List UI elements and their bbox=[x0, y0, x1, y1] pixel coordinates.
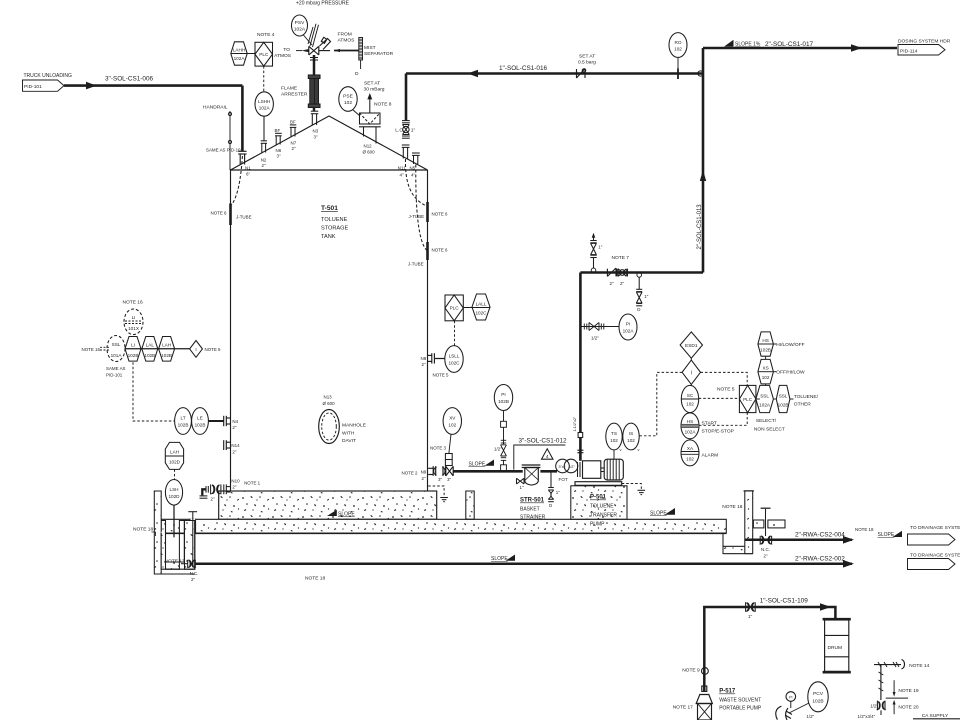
svg-text:1/2": 1/2" bbox=[568, 465, 575, 469]
drain line 2"-RWA-CS2-002 bbox=[195, 563, 852, 566]
svg-text:102: 102 bbox=[762, 375, 770, 380]
dashed to LT bbox=[133, 362, 174, 421]
svg-text:102: 102 bbox=[686, 402, 694, 407]
svg-text:102B: 102B bbox=[178, 423, 189, 428]
svg-text:NOTE 18: NOTE 18 bbox=[855, 527, 874, 532]
svg-text:LALL: LALL bbox=[476, 302, 487, 307]
svg-text:2": 2" bbox=[292, 146, 296, 151]
svg-text:2": 2" bbox=[232, 425, 236, 430]
svg-text:v: v bbox=[620, 447, 622, 452]
svg-text:NOTE 1: NOTE 1 bbox=[244, 481, 261, 486]
svg-text:WITH: WITH bbox=[342, 431, 355, 437]
nozzle N1 with unloading dip pipe bbox=[238, 151, 246, 164]
svg-text:XV: XV bbox=[449, 416, 456, 421]
LSLL 102C bbox=[445, 346, 463, 373]
LT 102B / LE 102B bbox=[175, 408, 192, 435]
svg-text:2": 2" bbox=[211, 497, 215, 502]
small concrete blocks by tundish bbox=[753, 520, 764, 528]
svg-text:3"-SOL-CS1-006: 3"-SOL-CS1-006 bbox=[105, 76, 154, 83]
svg-text:MIST: MIST bbox=[364, 45, 376, 51]
revision triangle 4 bbox=[542, 449, 554, 459]
svg-text:+20 mbarg PRESSURE: +20 mbarg PRESSURE bbox=[296, 1, 350, 7]
svg-text:IS: IS bbox=[629, 431, 633, 436]
motor ground bbox=[622, 484, 642, 490]
svg-text:DAVIT: DAVIT bbox=[342, 438, 356, 444]
svg-text:102: 102 bbox=[344, 100, 352, 106]
svg-text:LAHH: LAHH bbox=[233, 48, 245, 53]
svg-text:NOTE 15: NOTE 15 bbox=[82, 347, 101, 352]
svg-text:NOTE 8: NOTE 8 bbox=[374, 102, 392, 108]
SSL 102A hexagon bbox=[756, 385, 774, 412]
svg-text:T-501: T-501 bbox=[321, 205, 338, 212]
svg-text:NOTE 2: NOTE 2 bbox=[402, 471, 419, 476]
svg-text:SET AT: SET AT bbox=[579, 54, 595, 60]
pump P-501 body bbox=[583, 461, 601, 479]
line strainer to pump bbox=[540, 470, 557, 473]
flame arrester bbox=[313, 55, 316, 75]
svg-text:3": 3" bbox=[438, 477, 442, 482]
svg-text:PSE: PSE bbox=[343, 94, 353, 100]
svg-text:SLOPE: SLOPE bbox=[650, 511, 667, 517]
svg-text:NOTE 18: NOTE 18 bbox=[133, 527, 153, 533]
svg-text:N1: N1 bbox=[245, 166, 251, 171]
svg-text:N9: N9 bbox=[421, 470, 427, 475]
N.C. valve on RWA-004 bbox=[760, 536, 771, 545]
svg-text:30 mBarg: 30 mBarg bbox=[364, 87, 385, 93]
valve 1" bbox=[746, 602, 756, 611]
manhole N13 with davit bbox=[319, 410, 340, 444]
svg-text:TOLUENE/: TOLUENE/ bbox=[794, 394, 819, 400]
svg-text:102B: 102B bbox=[778, 403, 789, 408]
dashed HS to PLC bbox=[699, 413, 747, 426]
svg-text:102B: 102B bbox=[161, 353, 172, 358]
svg-text:PLC: PLC bbox=[450, 306, 460, 311]
svg-text:102: 102 bbox=[686, 457, 694, 462]
svg-text:BASKET: BASKET bbox=[520, 507, 540, 513]
tundish funnel in pit bbox=[188, 512, 197, 564]
vent valve 1" bbox=[591, 268, 596, 273]
LALL 102C hexagon bbox=[463, 307, 490, 309]
svg-text:NOTE 3: NOTE 3 bbox=[430, 446, 447, 451]
HS 102B hexagon bbox=[758, 332, 774, 356]
svg-text:102: 102 bbox=[610, 438, 618, 443]
svg-text:LAL: LAL bbox=[146, 343, 155, 348]
svg-text:1": 1" bbox=[411, 128, 416, 134]
svg-text:LSLL: LSLL bbox=[449, 354, 460, 359]
svg-text:1/2"x3/4": 1/2"x3/4" bbox=[858, 714, 876, 719]
svg-text:ARRESTER: ARRESTER bbox=[281, 92, 308, 98]
HS 102A bbox=[681, 413, 699, 439]
strainer STR-501 bbox=[522, 465, 541, 485]
pipe support pedestal bbox=[466, 491, 474, 519]
line 1"-SOL-CS1-016 bbox=[406, 72, 703, 75]
svg-text:ATMOS: ATMOS bbox=[274, 53, 292, 59]
svg-text:N13: N13 bbox=[324, 395, 333, 400]
nozzle N14 bbox=[224, 440, 231, 450]
P-517 portable pump bbox=[696, 674, 712, 720]
interlock diamond bbox=[190, 341, 203, 358]
svg-text:MANHOLE: MANHOLE bbox=[342, 423, 367, 429]
nozzle N12 manhole with PSE bbox=[359, 95, 381, 144]
svg-text:NOTE 18: NOTE 18 bbox=[722, 504, 742, 510]
svg-text:1": 1" bbox=[598, 245, 602, 250]
svg-text:102: 102 bbox=[448, 423, 456, 428]
reducers 3"x2-1/2" bbox=[556, 459, 570, 473]
svg-text:102A: 102A bbox=[685, 430, 697, 435]
svg-text:LSH: LSH bbox=[169, 487, 178, 492]
svg-text:SELECT/: SELECT/ bbox=[756, 418, 777, 424]
svg-text:PSV: PSV bbox=[295, 20, 305, 26]
dashed I to IS bbox=[640, 372, 683, 435]
svg-text:ESD1: ESD1 bbox=[685, 343, 698, 349]
svg-text:HANDRAIL: HANDRAIL bbox=[203, 105, 228, 111]
svg-text:N14: N14 bbox=[231, 443, 240, 448]
N.C. 2" sump drain valve bbox=[181, 560, 195, 568]
svg-text:102A: 102A bbox=[259, 106, 271, 111]
svg-text:102C: 102C bbox=[448, 361, 460, 366]
nozzle N3 (flame arrester) bbox=[311, 111, 319, 125]
pump foundation P-501 bbox=[571, 486, 627, 519]
svg-text:102B: 102B bbox=[195, 423, 206, 428]
svg-text:102A: 102A bbox=[623, 329, 635, 334]
svg-text:TRUCK UNLOADING: TRUCK UNLOADING bbox=[24, 73, 72, 79]
svg-text:LT: LT bbox=[180, 416, 185, 421]
svg-text:SC: SC bbox=[687, 393, 694, 398]
PCV 102B bbox=[808, 682, 828, 712]
svg-text:PLC: PLC bbox=[259, 52, 269, 57]
XV 102 bubble bbox=[443, 408, 461, 435]
L.O. valve at N11 bbox=[402, 121, 410, 139]
svg-text:NOTE 19: NOTE 19 bbox=[898, 688, 918, 694]
svg-text:101X: 101X bbox=[128, 326, 139, 331]
SSL 102B hexagon bbox=[776, 385, 790, 412]
svg-text:SLOPE: SLOPE bbox=[469, 462, 486, 468]
dashed I to PLC bbox=[701, 372, 748, 385]
svg-text:WASTE SOLVENT: WASTE SOLVENT bbox=[719, 698, 761, 704]
svg-text:L.O: L.O bbox=[395, 128, 403, 134]
svg-text:4": 4" bbox=[400, 173, 404, 178]
svg-text:TO: TO bbox=[283, 47, 290, 53]
svg-text:N.C.: N.C. bbox=[190, 571, 199, 576]
svg-text:P-501: P-501 bbox=[590, 495, 607, 501]
svg-text:102B: 102B bbox=[760, 348, 771, 353]
svg-text:NOTE 7: NOTE 7 bbox=[612, 255, 630, 261]
tank T-501 shell bbox=[231, 116, 428, 491]
hose to drum bbox=[776, 706, 788, 720]
svg-text:v: v bbox=[638, 447, 640, 452]
XV actuator bbox=[445, 454, 452, 466]
svg-text:0.5 barg: 0.5 barg bbox=[578, 60, 596, 66]
svg-text:N.C.: N.C. bbox=[761, 547, 770, 552]
svg-text:SLOPE: SLOPE bbox=[878, 532, 895, 538]
motor bbox=[604, 459, 623, 480]
svg-text:6": 6" bbox=[246, 172, 250, 177]
svg-text:2": 2" bbox=[610, 281, 614, 286]
svg-text:SET AT: SET AT bbox=[364, 81, 380, 87]
svg-text:Ø 600: Ø 600 bbox=[323, 401, 336, 406]
svg-text:1-1/2"x2": 1-1/2"x2" bbox=[573, 416, 577, 431]
svg-text:LE: LE bbox=[197, 416, 203, 421]
strainer drain valve bbox=[517, 478, 525, 484]
svg-text:HS: HS bbox=[762, 338, 768, 343]
svg-text:3"-SOL-CS1-012: 3"-SOL-CS1-012 bbox=[519, 438, 568, 445]
concrete drain column NOTE 18 bbox=[745, 491, 753, 554]
svg-text:J-TUBE: J-TUBE bbox=[408, 262, 424, 267]
baseplate bbox=[575, 482, 622, 486]
LSH 102D bbox=[165, 480, 182, 506]
svg-text:102A: 102A bbox=[294, 27, 306, 33]
svg-text:NOTE 6: NOTE 6 bbox=[211, 211, 228, 216]
ground slab bbox=[161, 519, 753, 553]
svg-text:2": 2" bbox=[422, 362, 426, 367]
PSE 102 bbox=[339, 87, 357, 112]
svg-text:1"-SOL-CS1-016: 1"-SOL-CS1-016 bbox=[499, 65, 548, 72]
svg-text:1"-SOL-CS1-109: 1"-SOL-CS1-109 bbox=[760, 598, 809, 605]
CA supply hose connection bbox=[874, 660, 905, 701]
drum bbox=[823, 619, 851, 672]
svg-text:2": 2" bbox=[620, 281, 624, 286]
svg-text:1/2": 1/2" bbox=[591, 336, 599, 341]
svg-text:N11: N11 bbox=[398, 166, 406, 171]
PI small gauge bbox=[786, 692, 796, 702]
left J-tube anchor bbox=[229, 204, 232, 226]
svg-text:HS: HS bbox=[687, 419, 693, 424]
svg-text:1/2": 1/2" bbox=[806, 714, 814, 719]
svg-text:2"-RWA-CS2-002: 2"-RWA-CS2-002 bbox=[795, 556, 845, 563]
PVRV (pressure/vacuum relief valve) bbox=[308, 24, 331, 55]
handrail bbox=[228, 111, 231, 170]
svg-text:NOTE 6: NOTE 6 bbox=[432, 248, 449, 253]
svg-text:102A: 102A bbox=[234, 56, 246, 61]
svg-text:TS: TS bbox=[611, 431, 617, 436]
drop into N1 bbox=[241, 86, 244, 151]
svg-text:PLC: PLC bbox=[743, 397, 753, 402]
svg-text:SLOPE: SLOPE bbox=[491, 556, 508, 562]
svg-text:PI: PI bbox=[626, 322, 630, 327]
svg-text:STOP/E-STOP: STOP/E-STOP bbox=[702, 429, 734, 435]
pump discharge riser bbox=[579, 438, 582, 461]
svg-text:STORAGE: STORAGE bbox=[321, 226, 349, 232]
svg-text:102C: 102C bbox=[475, 311, 487, 316]
svg-text:102B: 102B bbox=[498, 399, 509, 404]
svg-text:TOLUENE: TOLUENE bbox=[590, 504, 614, 510]
svg-text:N5: N5 bbox=[410, 166, 416, 171]
I diamond bbox=[682, 360, 700, 384]
svg-text:2": 2" bbox=[232, 484, 236, 489]
svg-text:N8: N8 bbox=[421, 356, 427, 361]
svg-text:NON SELECT: NON SELECT bbox=[754, 427, 785, 433]
tank label T-501 bbox=[321, 205, 349, 240]
drain branch 1" D bbox=[637, 273, 642, 278]
svg-text:D: D bbox=[355, 71, 359, 77]
svg-text:NOTE 5: NOTE 5 bbox=[717, 387, 735, 393]
svg-text:N4: N4 bbox=[232, 419, 238, 424]
ESD1 diamond bbox=[680, 332, 702, 358]
svg-text:I: I bbox=[195, 347, 196, 353]
svg-text:NOTE 20: NOTE 20 bbox=[898, 704, 918, 710]
TS 102 / IS 102 bbox=[606, 423, 622, 450]
svg-text:NOTE 16: NOTE 16 bbox=[123, 300, 143, 306]
SSL 101A bbox=[107, 336, 125, 362]
svg-text:PI: PI bbox=[501, 392, 505, 397]
svg-text:BF: BF bbox=[275, 128, 281, 133]
line 3"-SOL-CS1-006 bbox=[64, 84, 242, 87]
svg-text:102B: 102B bbox=[812, 699, 823, 705]
svg-text:ATMOS: ATMOS bbox=[338, 38, 356, 44]
svg-text:4": 4" bbox=[411, 173, 415, 178]
XA 102 bbox=[681, 440, 699, 466]
svg-text:SAME AS: SAME AS bbox=[106, 366, 126, 371]
nozzle N8 bbox=[435, 358, 445, 360]
SC 102 bbox=[681, 385, 698, 412]
svg-text:TANK: TANK bbox=[321, 234, 336, 240]
svg-text:D: D bbox=[637, 307, 640, 312]
connectors ESD-I-SC bbox=[690, 358, 691, 440]
CA supply valve bbox=[877, 701, 885, 715]
svg-text:DOSING SYSTEM HDR: DOSING SYSTEM HDR bbox=[898, 39, 951, 45]
svg-text:NOTE 5: NOTE 5 bbox=[205, 347, 222, 352]
svg-text:2": 2" bbox=[262, 163, 266, 168]
svg-text:101A: 101A bbox=[111, 353, 123, 358]
svg-text:J-TUBE: J-TUBE bbox=[409, 214, 425, 219]
check valve bbox=[607, 268, 616, 276]
right J-tube anchors bbox=[426, 202, 429, 222]
svg-text:SEPARATOR: SEPARATOR bbox=[364, 51, 394, 57]
PLC box (select) bbox=[739, 385, 756, 412]
nozzle N4 bbox=[208, 420, 224, 422]
PI 102B bbox=[494, 385, 512, 411]
PSV 102A bubble bbox=[292, 15, 308, 36]
NOTE 9 coupling bbox=[702, 668, 709, 675]
slope labels on slab bbox=[327, 510, 337, 516]
svg-text:1/2": 1/2" bbox=[870, 703, 878, 708]
LSHH 102A bbox=[255, 92, 273, 116]
svg-text:XA: XA bbox=[687, 446, 694, 451]
svg-text:102A: 102A bbox=[759, 403, 771, 408]
svg-text:J-TUBE: J-TUBE bbox=[236, 215, 252, 220]
svg-text:N3: N3 bbox=[313, 129, 319, 134]
svg-text:2"-SOL-CS1-017: 2"-SOL-CS1-017 bbox=[765, 41, 814, 48]
tank foundation bbox=[219, 491, 437, 519]
svg-text:LAH: LAH bbox=[170, 450, 179, 455]
svg-text:102: 102 bbox=[674, 47, 682, 52]
nozzle N6 bbox=[275, 133, 282, 144]
svg-text:2"-SOL-CS1-013: 2"-SOL-CS1-013 bbox=[697, 204, 703, 250]
discharge header to riser bbox=[580, 271, 703, 274]
svg-text:ALARM: ALARM bbox=[702, 452, 719, 458]
nozzle N7 bbox=[290, 125, 297, 137]
svg-text:SSL: SSL bbox=[779, 394, 788, 399]
svg-text:N7: N7 bbox=[291, 141, 297, 146]
svg-text:N10: N10 bbox=[231, 478, 240, 483]
svg-text:102D: 102D bbox=[169, 460, 181, 465]
svg-text:2": 2" bbox=[191, 577, 195, 582]
svg-text:NOTE 17: NOTE 17 bbox=[673, 705, 693, 711]
svg-text:PCV: PCV bbox=[813, 691, 824, 697]
svg-text:STR-501: STR-501 bbox=[520, 498, 545, 504]
svg-text:N2: N2 bbox=[261, 158, 267, 163]
svg-text:Ø 600: Ø 600 bbox=[363, 150, 376, 155]
svg-text:3": 3" bbox=[277, 154, 281, 159]
svg-text:NOTE 6: NOTE 6 bbox=[432, 212, 449, 217]
line 2"-SOL-CS1-017 to dosing bbox=[703, 47, 897, 50]
svg-text:XS: XS bbox=[762, 366, 768, 371]
line 1"-SOL-CS1-109 bbox=[704, 607, 835, 691]
svg-text:102: 102 bbox=[627, 438, 635, 443]
svg-text:2": 2" bbox=[422, 476, 426, 481]
LAH 102D hexagon bbox=[165, 442, 183, 469]
svg-text:PUMP: PUMP bbox=[590, 522, 605, 528]
drain line 2"-RWA-CS2-004 bbox=[745, 539, 852, 542]
svg-text:1": 1" bbox=[644, 294, 648, 299]
svg-text:PID-101: PID-101 bbox=[24, 84, 42, 90]
svg-text:1": 1" bbox=[520, 485, 524, 490]
svg-text:OFF/HI/LOW: OFF/HI/LOW bbox=[776, 370, 805, 376]
svg-text:NOTE 4: NOTE 4 bbox=[257, 32, 275, 38]
svg-text:SLOPE: SLOPE bbox=[338, 512, 355, 518]
svg-text:SAME AS PID-101: SAME AS PID-101 bbox=[206, 148, 244, 153]
svg-text:NOTE 5: NOTE 5 bbox=[433, 372, 450, 377]
nozzle N11 bbox=[402, 145, 410, 159]
svg-text:SSL: SSL bbox=[760, 394, 769, 399]
svg-text:1": 1" bbox=[748, 614, 752, 619]
svg-text:NOTE 9: NOTE 9 bbox=[682, 668, 700, 674]
svg-text:I: I bbox=[691, 371, 692, 377]
tank grounding bbox=[428, 486, 444, 496]
LAHH 102A hexagon bbox=[231, 42, 247, 65]
svg-text:102B: 102B bbox=[144, 353, 155, 358]
svg-text:PORTABLE PUMP: PORTABLE PUMP bbox=[719, 706, 762, 712]
svg-text:SSL: SSL bbox=[112, 342, 121, 347]
svg-text:N12: N12 bbox=[364, 144, 373, 149]
svg-text:OTHER: OTHER bbox=[794, 402, 811, 408]
svg-text:NOTE 18: NOTE 18 bbox=[305, 576, 325, 582]
hexagons LI/LAL/LAH 102B bbox=[125, 348, 190, 350]
XS 102 hexagon bbox=[758, 359, 774, 384]
svg-text:PID-114: PID-114 bbox=[900, 49, 918, 55]
svg-text:RO: RO bbox=[675, 40, 682, 45]
svg-text:102D: 102D bbox=[168, 494, 180, 499]
svg-text:102B: 102B bbox=[128, 353, 139, 358]
svg-text:STRAINER: STRAINER bbox=[520, 515, 546, 521]
suction line to strainer/pump bbox=[453, 470, 523, 473]
svg-text:3": 3" bbox=[447, 477, 451, 482]
nozzle N2 bbox=[261, 141, 267, 153]
svg-text:N6: N6 bbox=[276, 148, 282, 153]
svg-text:1/2": 1/2" bbox=[494, 446, 502, 451]
PLC box (LSLL) bbox=[445, 295, 463, 321]
svg-text:TO DRAINAGE SYSTEM: TO DRAINAGE SYSTEM bbox=[910, 525, 960, 531]
nozzle N5 bbox=[412, 153, 420, 164]
svg-text:D: D bbox=[549, 503, 552, 508]
svg-text:PID-101: PID-101 bbox=[106, 373, 123, 378]
svg-text:3": 3" bbox=[314, 135, 318, 140]
PI 102A tap bbox=[580, 323, 619, 331]
svg-text:LAH: LAH bbox=[162, 343, 171, 348]
svg-text:LI: LI bbox=[131, 343, 135, 348]
svg-text:SLOPE 1%: SLOPE 1% bbox=[735, 42, 761, 48]
mist separator bbox=[359, 38, 363, 70]
RO 102 restriction orifice bbox=[669, 33, 687, 58]
sump pit (left) bbox=[154, 491, 195, 574]
svg-text:BF: BF bbox=[290, 120, 296, 125]
svg-text:LSHH: LSHH bbox=[258, 99, 270, 104]
svg-text:2": 2" bbox=[764, 554, 768, 559]
svg-text:4: 4 bbox=[546, 454, 549, 460]
svg-text:2": 2" bbox=[232, 450, 236, 455]
svg-text:TO DRAINAGE SYSTEM: TO DRAINAGE SYSTEM bbox=[910, 553, 960, 559]
riser 2"-SOL-CS1-013 top bbox=[702, 48, 705, 273]
